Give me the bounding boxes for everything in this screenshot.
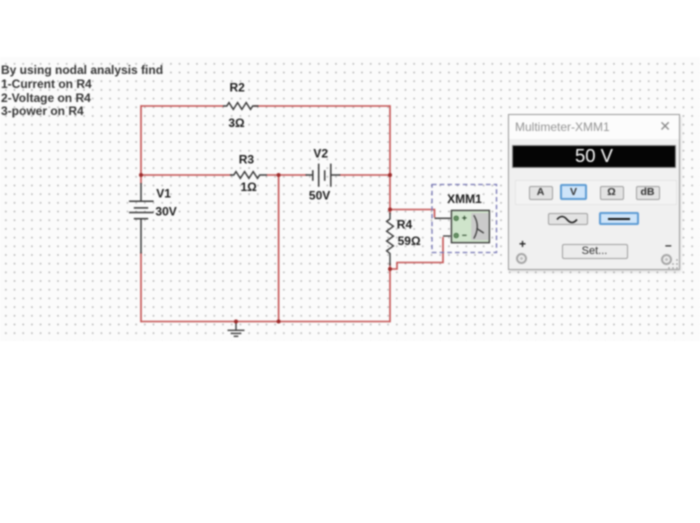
node R4 top junction <box>388 208 392 212</box>
node center-middle junction <box>277 173 281 177</box>
wire center vertical drop <box>278 175 280 322</box>
dialog title bar <box>509 115 679 139</box>
wire right vertical below R4 <box>389 263 391 322</box>
node ground junction <box>234 320 238 324</box>
resize grip <box>665 255 679 269</box>
problem statement text <box>1 64 163 119</box>
svg-text:R3: R3 <box>239 153 255 167</box>
svg-text:V2: V2 <box>313 147 328 161</box>
svg-text:30V: 30V <box>155 205 176 219</box>
wire V2 to right vertical <box>339 174 390 176</box>
button V selected <box>560 184 587 201</box>
wire top-left to R2 <box>141 105 224 107</box>
multimeter XMM1 gauge face <box>471 213 488 240</box>
wire R3 to V2 <box>266 174 307 176</box>
resistor R4 <box>387 213 394 266</box>
button AC sine <box>548 213 588 225</box>
wire R4 top to XMM1 plus <box>390 210 435 218</box>
node bottom-center junction <box>277 320 281 324</box>
battery V2 <box>306 164 341 187</box>
button DC selected <box>599 212 639 226</box>
multimeter XMM1 pins <box>435 218 451 236</box>
wire left vertical upper <box>140 105 142 184</box>
wire middle node A to R3 <box>141 174 232 176</box>
svg-text:R4: R4 <box>397 218 413 232</box>
dialog mode button row frame <box>515 180 677 205</box>
multimeter XMM1 plus terminal <box>454 216 458 220</box>
svg-text:V1: V1 <box>156 187 171 201</box>
multimeter XMM1 body <box>451 210 489 242</box>
button Set <box>562 244 628 259</box>
svg-text:XMM1: XMM1 <box>447 192 482 206</box>
resistor R2 <box>223 103 259 110</box>
minus terminal label <box>665 238 672 252</box>
node left-middle junction <box>139 173 143 177</box>
multimeter dialog window <box>508 114 680 270</box>
svg-text:3Ω: 3Ω <box>228 116 245 130</box>
dialog close button <box>659 118 671 135</box>
svg-text:R2: R2 <box>230 81 246 95</box>
button ohm <box>600 186 624 200</box>
battery V1 <box>129 183 154 254</box>
svg-text:59Ω: 59Ω <box>398 234 421 248</box>
multimeter XMM1 minus terminal <box>454 233 458 237</box>
multimeter XMM1 selection dashed box <box>432 185 497 253</box>
button A <box>529 186 553 200</box>
wire left vertical lower <box>140 252 142 322</box>
plus terminal label <box>519 237 526 251</box>
ground <box>228 322 245 337</box>
svg-text:1Ω: 1Ω <box>240 180 257 194</box>
resistor R3 <box>230 172 267 179</box>
button dB <box>636 186 660 200</box>
dotted schematic grid background <box>0 57 700 341</box>
minus input jack <box>661 254 672 265</box>
wire bottom rail <box>141 321 390 323</box>
wire right vertical upper <box>389 105 391 214</box>
wire R4 bottom to XMM1 minus <box>390 237 443 269</box>
multimeter XMM1 polarity marks <box>462 216 466 220</box>
dialog reading display <box>512 145 676 168</box>
wire R2 to top-right corner down <box>254 105 390 107</box>
node right-middle junction <box>388 173 392 177</box>
multimeter XMM1 gauge arc and needle <box>474 215 478 238</box>
node R4 bottom junction <box>388 267 392 271</box>
svg-text:50V: 50V <box>309 189 330 203</box>
plus input jack <box>516 253 527 264</box>
